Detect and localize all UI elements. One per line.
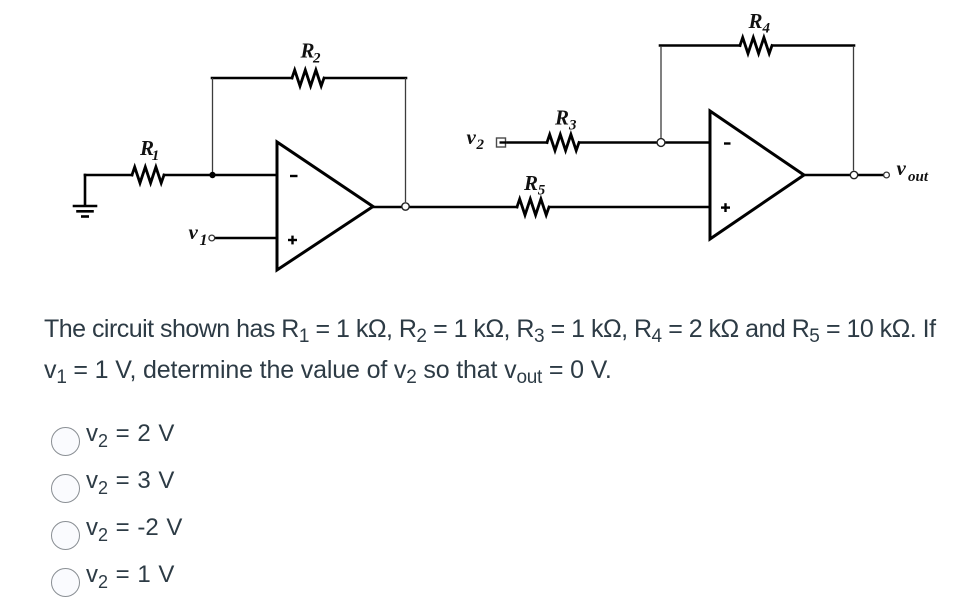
svg-text:v: v [189, 220, 199, 244]
svg-text:3: 3 [568, 118, 577, 134]
svg-text:R: R [523, 171, 538, 195]
svg-text:v: v [467, 125, 477, 149]
svg-text:1: 1 [200, 232, 208, 249]
svg-text:v: v [897, 156, 907, 180]
svg-text:out: out [908, 169, 929, 185]
svg-text:R: R [748, 9, 763, 33]
svg-text:2: 2 [476, 137, 485, 153]
svg-text:4: 4 [762, 20, 771, 36]
svg-text:1: 1 [152, 148, 160, 164]
svg-text:2: 2 [312, 51, 321, 67]
svg-text:R: R [554, 106, 569, 130]
svg-text:5: 5 [538, 183, 546, 199]
